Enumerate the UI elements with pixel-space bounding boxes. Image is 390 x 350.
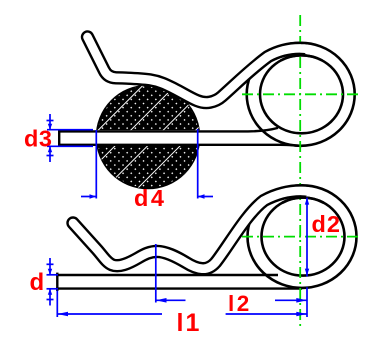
svg-text:l1: l1 <box>177 309 202 337</box>
svg-text:d2: d2 <box>312 211 341 237</box>
svg-text:d: d <box>30 269 45 296</box>
svg-text:l2: l2 <box>228 291 252 316</box>
svg-text:d3: d3 <box>24 126 52 152</box>
svg-text:d4: d4 <box>134 185 166 211</box>
